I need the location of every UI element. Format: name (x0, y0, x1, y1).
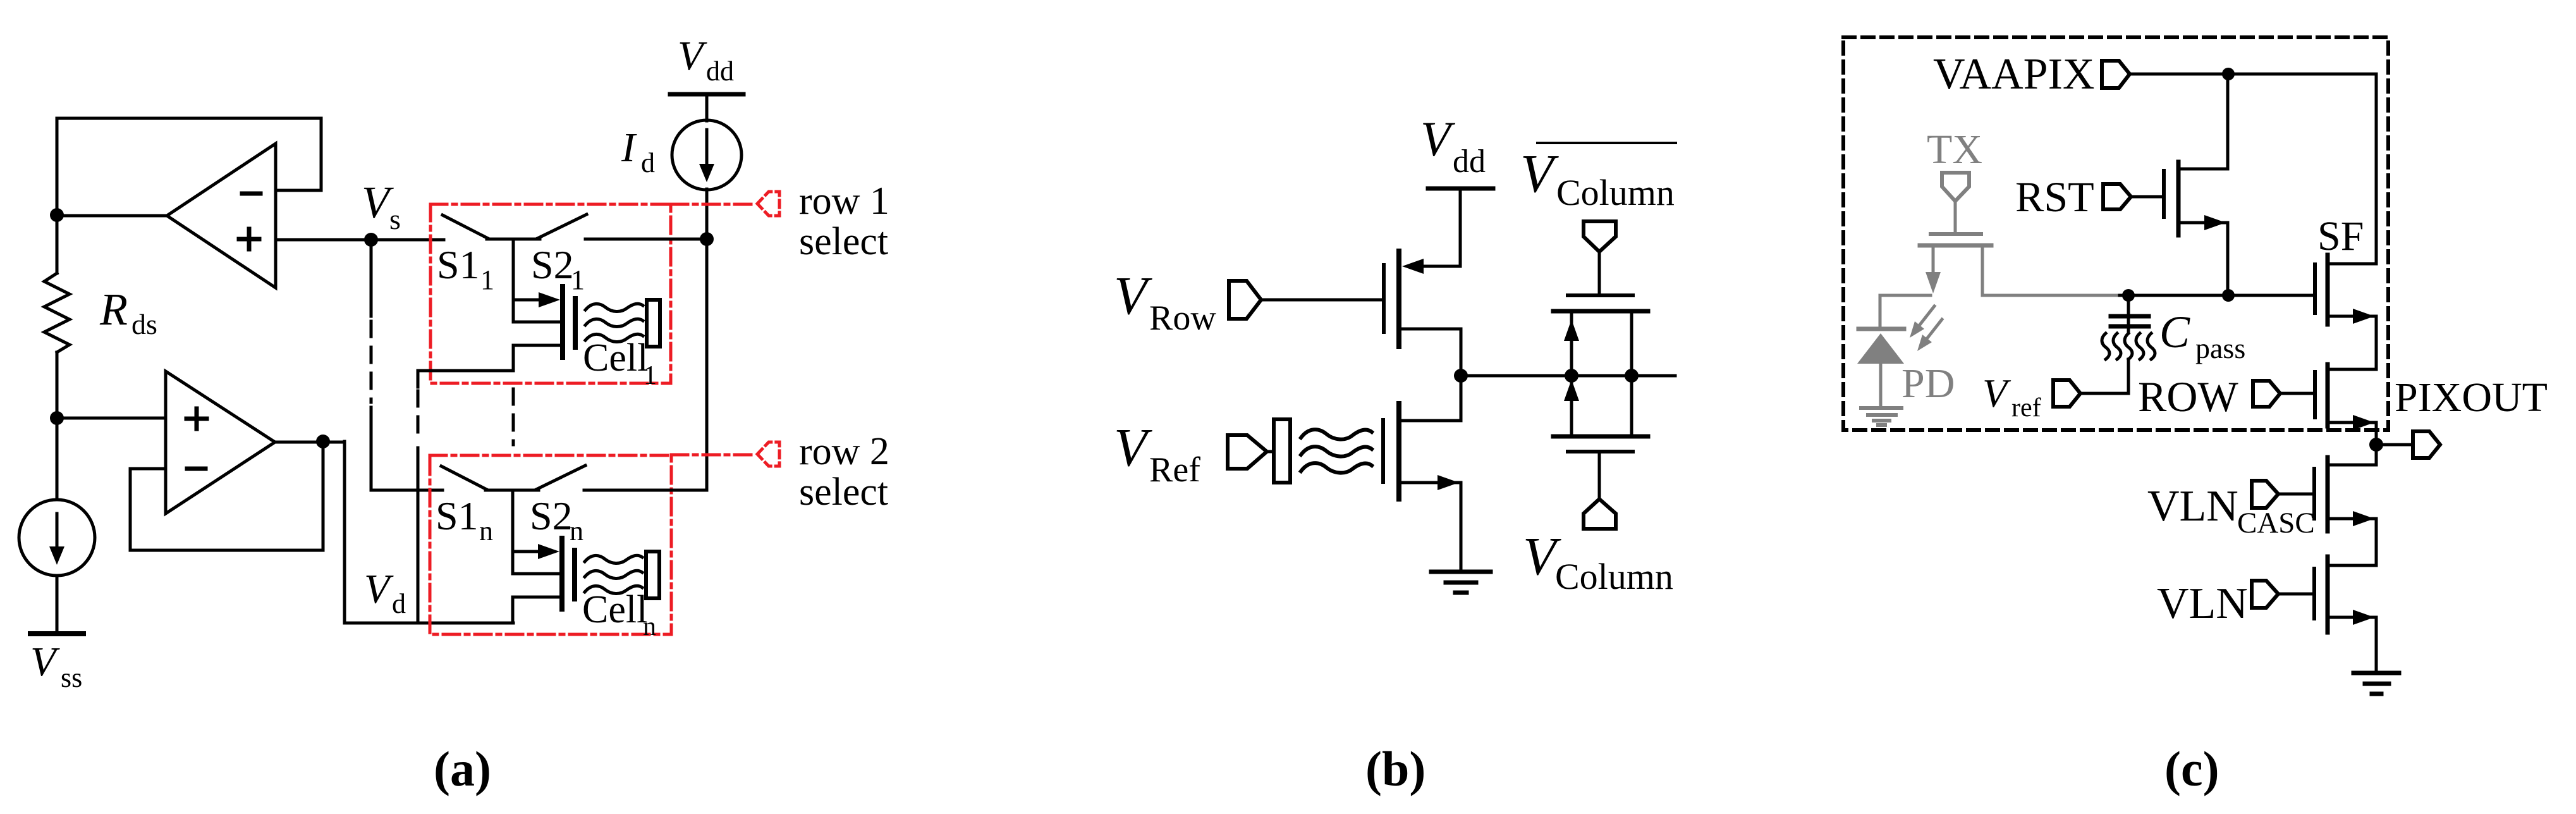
port pad ROW (2253, 381, 2280, 407)
TG bottom gate bar (1568, 450, 1633, 453)
switch S11/S21 center bar (487, 238, 540, 241)
wire: node A down to resistor (56, 215, 59, 273)
ground Vss bar (30, 631, 83, 636)
wire: floating diffusion rail to SF gate (2115, 294, 2313, 297)
wire: M1 source down to node (1399, 329, 1461, 421)
svg-text:R: R (99, 284, 128, 335)
svg-text:(b): (b) (1365, 741, 1425, 796)
transistor RST gate bar (2162, 171, 2166, 217)
wire: VLNCASC drain (2328, 464, 2376, 467)
switch S11 blade (443, 215, 488, 238)
wire: RST drain up (2178, 74, 2228, 169)
wire: Vs vertical (dashed ellipsis) (370, 321, 373, 402)
svg-text:Ref: Ref (1149, 450, 1200, 490)
svg-text:S2: S2 (531, 242, 574, 287)
VRef electrode rectangle (1274, 419, 1290, 483)
transistor VLN gate bar (2312, 569, 2316, 619)
transistor M1 drain arrow (pointing left) (1402, 259, 1424, 274)
wire: Vs vertical down (solid) (370, 240, 373, 316)
red row1 select line (671, 203, 752, 206)
wire: TX right leg (1982, 247, 2116, 295)
ground PD (1861, 406, 1901, 410)
svg-text:1: 1 (480, 264, 494, 295)
svg-text:s: s (389, 203, 401, 235)
transistor S2n channel bar (559, 538, 565, 609)
capacitor Cpass top plate (2111, 314, 2149, 319)
svg-text:ref: ref (2011, 393, 2041, 422)
wire: Vdd to M1 drain (1420, 188, 1460, 266)
transistor TX channel bar (1920, 244, 1991, 248)
svg-text:VLN: VLN (2147, 482, 2238, 531)
cell n memory waves (585, 555, 642, 563)
red row2 select line (671, 453, 752, 457)
transistor S21 floating bar (573, 299, 578, 347)
node: Id and row1 junction (700, 232, 714, 246)
cell1 memory waves (585, 304, 643, 311)
wire: S2n to right rail (584, 489, 707, 492)
transistor S21 source line (513, 344, 560, 347)
wire: VRow pad to M1 gate (1261, 299, 1382, 302)
current source Iss arrow (56, 514, 59, 549)
svg-text:C: C (2159, 307, 2190, 357)
wire: cell1 bottom wire (418, 371, 513, 387)
wire: switch center post cell1 (512, 239, 515, 322)
port pad RST (2103, 184, 2131, 209)
svg-text:select: select (799, 220, 888, 263)
svg-text:ss: ss (61, 662, 82, 693)
svg-text:(a): (a) (434, 741, 491, 796)
transistor VLNCASC source arrow (2328, 519, 2376, 565)
svg-text:d: d (392, 588, 406, 619)
svg-text:Cell: Cell (583, 336, 648, 379)
svg-text:row 1: row 1 (799, 180, 889, 223)
ground panel b (1431, 570, 1491, 574)
wire: Id rail down (705, 189, 709, 490)
TG top gate bar (1568, 293, 1633, 297)
switch S2n blade (536, 466, 585, 490)
svg-text:VAAPIX: VAAPIX (1933, 50, 2094, 99)
svg-text:S1: S1 (437, 242, 480, 287)
wire: SF drain (2328, 262, 2376, 266)
wire: S2n source down to Vd rail (511, 597, 515, 623)
transistor M1 channel bar (1396, 251, 1401, 347)
wire: node to transmission gate (1461, 374, 1675, 378)
wire: node B to op-amp U2 + input (57, 417, 166, 420)
photon arrow 2 (1924, 319, 1942, 343)
transistor VLN channel bar (2326, 557, 2330, 632)
wire: S21 source down to bottom wire (512, 345, 515, 371)
wire: op-amp U2 output (275, 441, 345, 444)
svg-text:V: V (30, 639, 60, 685)
transistor ROW channel bar (2326, 364, 2330, 426)
node B (50, 411, 64, 425)
transistor S2n gate line (513, 572, 559, 576)
svg-text:S2: S2 (530, 493, 573, 538)
node: U2 output node (316, 435, 330, 448)
TG left vertical with up arrows (1570, 311, 1573, 436)
current source Iss circle (56, 418, 59, 500)
TG top channel bar (1553, 309, 1648, 314)
wire: output down to Vd rail (345, 441, 513, 623)
wire: current source to Vss (56, 576, 59, 633)
label VColumn-bar overline (1537, 142, 1676, 144)
Vdd rail bar panel b (1428, 187, 1493, 191)
svg-text:ROW: ROW (2138, 373, 2238, 421)
wire: PIXOUT stub (2376, 443, 2413, 447)
op-amp U2 minus sign (187, 467, 205, 471)
wire: VLNCASC pad to gate (2278, 493, 2313, 496)
wire: TG bottom gate to pad (1598, 452, 1601, 498)
capacitor Cpass stub (2127, 295, 2130, 331)
svg-text:V: V (678, 33, 707, 79)
port pad VLNCASC (2252, 481, 2278, 508)
transistor M2 channel bar (1396, 404, 1401, 499)
wire: op-amp U1 output to left node (57, 214, 167, 218)
wire: op-amp U2 feedback (130, 442, 323, 550)
node: Cpass top (2122, 289, 2135, 302)
svg-text:1: 1 (571, 264, 585, 295)
op-amp U1 (pointing left) (167, 144, 276, 288)
current source Id arrow (705, 130, 709, 166)
TG right vertical (1630, 311, 1633, 436)
wire: PD top (1880, 295, 1931, 329)
svg-text:SF: SF (2317, 213, 2364, 259)
svg-text:Row: Row (1149, 299, 1216, 338)
svg-text:V: V (1420, 111, 1456, 166)
svg-text:(c): (c) (2164, 741, 2219, 796)
transmission gate top pad (1584, 221, 1616, 252)
wire: RST pad to gate (2131, 195, 2162, 199)
transistor VLNCASC channel bar (2326, 457, 2330, 531)
current source Id (672, 120, 742, 190)
capacitor Cpass bottom plate (2111, 324, 2149, 329)
node: left node A (50, 208, 64, 222)
svg-text:PIXOUT: PIXOUT (2395, 374, 2548, 421)
port pad VLN (2252, 581, 2278, 608)
node: inverter output (1454, 369, 1468, 383)
transistor M1 gate bar (1382, 265, 1386, 332)
op-amp U1 plus sign (239, 229, 259, 249)
transistor S21 drain line with arrow (513, 299, 542, 302)
svg-text:RST: RST (2015, 173, 2094, 221)
transistor VLN source arrow (2328, 617, 2376, 672)
transistor S21 channel bar (560, 287, 565, 357)
transistor SF channel bar (2326, 255, 2330, 324)
svg-text:I: I (621, 125, 637, 171)
port pad PIXOUT (2413, 431, 2440, 458)
transistor ROW gate bar (2313, 372, 2317, 417)
svg-text:n: n (570, 515, 583, 546)
wire: Vs vertical down to S1n (371, 407, 443, 490)
svg-text:1: 1 (644, 361, 657, 390)
photodiode PD triangle (1857, 333, 1904, 364)
TX transfer arrow (1932, 247, 1935, 276)
port pad TX (1942, 173, 1969, 201)
wire: Vref pad to Cpass (2080, 392, 2128, 395)
wire: left rail top (node to feedback) (56, 118, 59, 215)
node PIXOUT (2369, 438, 2383, 452)
wire: ROW drain (2328, 368, 2376, 371)
wire: resistor to node B (56, 352, 59, 418)
transistor ROW source arrow (2328, 422, 2376, 465)
wire: TX pad to gate (1954, 201, 1957, 232)
Vdd rail bar (670, 92, 743, 97)
wire: ROW pad to gate (2280, 392, 2313, 395)
ground panel c (2353, 671, 2399, 675)
wire: S21 to Id rail (585, 238, 707, 241)
transistor RST source arrow (2178, 223, 2228, 295)
wire: switch center post cell n (511, 490, 515, 574)
switch S21 blade (537, 214, 587, 238)
svg-text:d: d (641, 147, 655, 178)
svg-text:TX: TX (1927, 126, 1982, 173)
wire: pad to TG top gate (1598, 252, 1601, 293)
svg-text:dd: dd (1453, 144, 1486, 180)
node: TG left (1565, 369, 1578, 383)
svg-text:pass: pass (2195, 332, 2245, 364)
op-amp U1 minus sign (242, 192, 260, 196)
TG bottom channel bar (1553, 435, 1648, 439)
op-amp U2 plus sign (186, 409, 207, 429)
transistor M2 source with arrow (1399, 483, 1461, 570)
wire: Vs to S11 (371, 238, 444, 242)
svg-text:V: V (1114, 417, 1152, 478)
svg-text:n: n (643, 612, 656, 641)
port pad VAAPIX (2102, 61, 2130, 88)
wire: dashed ellipsis x661 (417, 391, 420, 443)
svg-text:VLN: VLN (2157, 579, 2248, 628)
port pad Vref (2053, 380, 2080, 407)
wire: VRef pad stub (1267, 450, 1274, 453)
switch S1n/S2n center bar (485, 489, 539, 492)
wire: VAAPIX rail (2130, 74, 2376, 264)
wire: op-amp U1 + input to Vs (276, 238, 371, 242)
wire: VLN pad to gate (2278, 593, 2313, 596)
op-amp U2 (pointing right) (166, 371, 275, 514)
svg-text:Column: Column (1556, 172, 1675, 213)
svg-text:Cell: Cell (582, 588, 647, 631)
red box cell n (430, 455, 671, 634)
wire: Vdd to current source Id (705, 94, 709, 121)
node: VAAPIX / RST drain (2222, 68, 2235, 80)
Cpass ferro squiggles (2102, 333, 2109, 359)
transistor S2n source line (513, 596, 559, 599)
switch S1n blade (441, 466, 487, 490)
pixel dashed box (1843, 37, 2388, 430)
gray TX section (1857, 126, 2116, 425)
svg-text:CASC: CASC (2237, 507, 2315, 540)
photon arrow 1 (1916, 306, 1934, 330)
wire: VLN drain (2328, 564, 2376, 567)
svg-text:select: select (799, 471, 888, 514)
node: floating diffusion (2222, 289, 2235, 302)
transistor SF gate bar (2313, 264, 2317, 313)
cell n electrode rectangle (646, 552, 659, 598)
wire: op-amp1 feedback top (57, 118, 321, 190)
port pad VRef (1228, 435, 1267, 469)
transistor VLNCASC gate bar (2312, 469, 2316, 519)
red box cell 1 (430, 204, 671, 383)
VRef memory waves (1301, 429, 1372, 439)
wire: dashed ellipsis x812 (512, 389, 515, 445)
svg-text:S1: S1 (436, 493, 479, 538)
resistor Rds (44, 273, 70, 352)
red row2 arrow pad (757, 442, 779, 466)
wire: Cpass bottom to Vref wire (2127, 359, 2130, 393)
svg-text:V: V (1114, 265, 1152, 326)
red row1 arrow pad (757, 192, 779, 216)
node Vs (364, 233, 378, 247)
transmission gate bottom pad (1584, 499, 1616, 529)
cell1 electrode rectangle (647, 300, 660, 347)
transistor TX gate bar (1931, 232, 1981, 236)
transistor S21 gate line (513, 321, 560, 324)
svg-text:row 2: row 2 (799, 430, 889, 473)
svg-text:V: V (1520, 143, 1559, 204)
wire: x661 solid to Vd rail (417, 448, 420, 623)
svg-text:ds: ds (131, 308, 157, 340)
wire: PD anode down (1879, 364, 1883, 406)
transistor RST channel bar (2176, 162, 2181, 235)
svg-text:PD: PD (1901, 361, 1955, 407)
svg-text:dd: dd (706, 56, 734, 87)
transistor S2n drain line with arrow (513, 550, 542, 553)
node: TG right (1625, 369, 1639, 383)
photodiode PD cathode bar (1859, 327, 1904, 331)
transistor S2n floating bar (572, 550, 577, 599)
port pad VRow (1229, 281, 1261, 319)
transistor SF source arrow (2328, 316, 2376, 369)
svg-text:n: n (479, 515, 493, 546)
svg-text:Column: Column (1555, 556, 1673, 597)
transistor M2 gate bar (1381, 420, 1385, 482)
svg-text:V: V (364, 566, 394, 612)
